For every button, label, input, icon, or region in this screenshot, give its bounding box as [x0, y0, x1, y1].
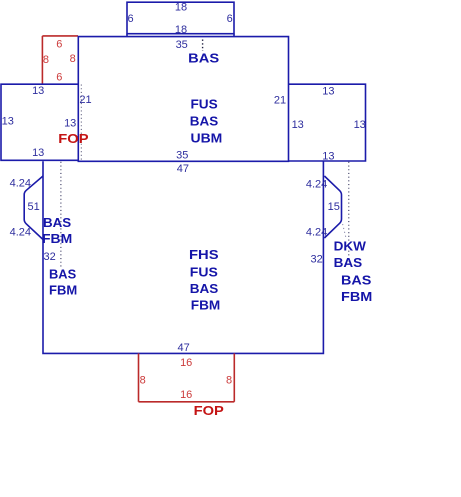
svg-text:51: 51 [27, 201, 39, 213]
svg-text:UBM: UBM [191, 130, 223, 145]
lower large panel outline [43, 161, 323, 353]
svg-text:FOP: FOP [194, 403, 225, 418]
svg-text:BAS: BAS [334, 255, 363, 270]
red glue panel bottom: bottom edge [139, 401, 235, 403]
svg-text:21: 21 [274, 95, 286, 107]
svg-text:32: 32 [310, 254, 322, 266]
svg-text:8: 8 [70, 53, 76, 65]
svg-text:13: 13 [292, 119, 304, 131]
central top panel outline [78, 37, 288, 162]
right side panel outline [289, 84, 366, 161]
red glue panel bottom: right edge [233, 353, 235, 401]
left dust flap (chamfered) [24, 176, 43, 240]
red glue panel top-left: top edge [42, 35, 78, 37]
svg-text:6: 6 [127, 13, 133, 25]
red glue panel top-left: left edge [41, 36, 43, 84]
red glue panel bottom: left edge [138, 353, 140, 401]
dotted fold line left side of lower panel [60, 162, 62, 267]
svg-text:FBM: FBM [42, 231, 72, 246]
svg-text:35: 35 [176, 150, 188, 162]
wire connector top box left edge to central panel [127, 34, 234, 37]
svg-text:BAS: BAS [43, 215, 72, 230]
left side panel outline [1, 84, 78, 160]
svg-text:FUS: FUS [190, 264, 218, 279]
svg-text:13: 13 [2, 115, 14, 127]
svg-text:16: 16 [180, 389, 192, 401]
svg-text:6: 6 [56, 72, 62, 84]
svg-text:16: 16 [180, 357, 192, 369]
svg-text:FOP: FOP [58, 131, 89, 146]
svg-text:BAS: BAS [188, 50, 219, 65]
svg-text:13: 13 [354, 119, 366, 131]
dotted fold line right edge of left panel [80, 85, 82, 161]
svg-text:13: 13 [322, 151, 334, 163]
svg-text:4.24: 4.24 [10, 227, 31, 239]
svg-text:8: 8 [140, 374, 146, 386]
svg-text:DKW: DKW [334, 238, 367, 253]
svg-text:47: 47 [177, 163, 189, 175]
right dust flap (chamfered) [324, 176, 341, 238]
svg-text:FBM: FBM [191, 298, 221, 313]
svg-text:18: 18 [175, 2, 187, 14]
svg-text:BAS: BAS [49, 266, 77, 281]
svg-text:6: 6 [227, 13, 233, 25]
svg-text:13: 13 [32, 147, 44, 159]
svg-text:13: 13 [32, 85, 44, 97]
svg-text:6: 6 [56, 39, 62, 51]
svg-text:47: 47 [177, 342, 189, 354]
panel top glue flap box [127, 2, 234, 34]
dotted fold line right side of lower panel [348, 162, 350, 262]
svg-text:4.24: 4.24 [10, 178, 31, 190]
dotted crease continuation at right flap corner [343, 224, 346, 238]
svg-text:35: 35 [176, 39, 188, 51]
svg-text:13: 13 [64, 117, 76, 129]
svg-text:4.24: 4.24 [306, 226, 327, 238]
svg-text:15: 15 [328, 201, 340, 213]
svg-text:8: 8 [226, 374, 232, 386]
svg-text:BAS: BAS [341, 272, 372, 287]
svg-text:8: 8 [43, 54, 49, 66]
svg-text:32: 32 [43, 251, 55, 263]
svg-text:18: 18 [175, 24, 187, 36]
dotted fold mark under top box [202, 40, 204, 52]
svg-text:FHS: FHS [189, 247, 219, 262]
svg-text:4.24: 4.24 [306, 178, 327, 190]
svg-text:FBM: FBM [341, 289, 372, 304]
svg-text:BAS: BAS [190, 114, 219, 129]
svg-text:BAS: BAS [190, 281, 219, 296]
svg-text:FUS: FUS [191, 97, 219, 112]
svg-text:FBM: FBM [49, 283, 77, 298]
svg-text:13: 13 [322, 85, 334, 97]
